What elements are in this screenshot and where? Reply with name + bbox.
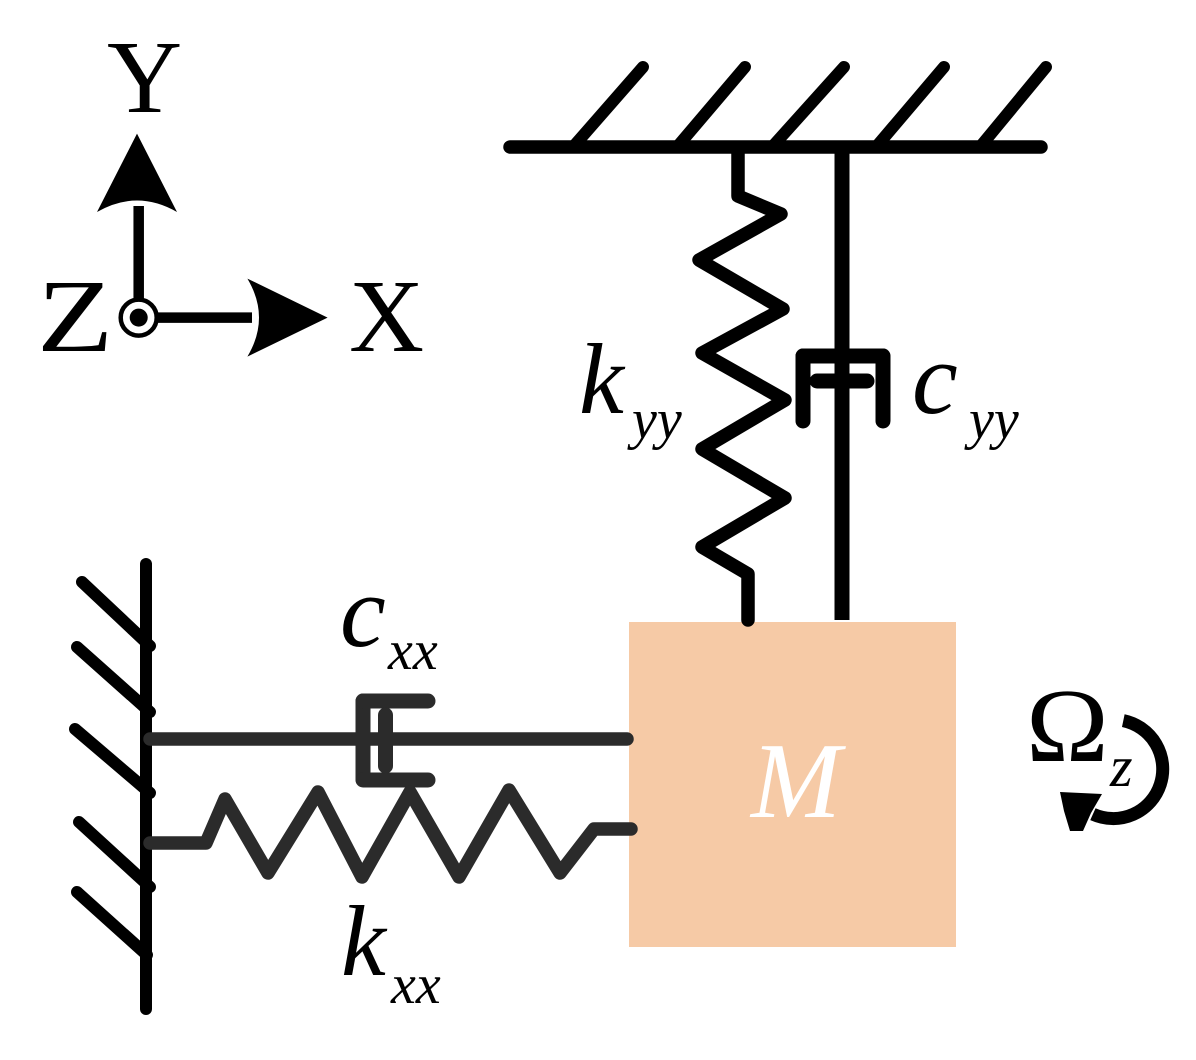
label c_yy (912, 322, 1019, 451)
svg-text:Ω: Ω (1026, 669, 1109, 784)
svg-text:Z: Z (37, 259, 113, 374)
ceiling hatch 2 (677, 67, 745, 147)
ceiling hatch 3 (772, 67, 844, 147)
ceiling hatch 1 (573, 67, 643, 147)
label k_yy (579, 323, 682, 451)
spring k_xx (150, 790, 631, 877)
svg-text:X: X (349, 259, 424, 374)
wall hatch 3 (75, 729, 150, 793)
svg-text:Y: Y (107, 20, 182, 135)
rotation arrow arc Omega_z (1093, 721, 1163, 819)
damper c_yy rod (835, 150, 850, 620)
svg-text:M: M (749, 722, 846, 841)
damper c_xx cup bottom wall (363, 773, 428, 788)
ceiling ground line (510, 140, 1041, 154)
damper c_yy cup cap (803, 349, 883, 364)
svg-text:k: k (341, 885, 388, 997)
label Omega_z (1026, 669, 1133, 799)
svg-text:xx: xx (390, 954, 441, 1016)
wall hatch 5 (77, 892, 147, 955)
label c_xx (340, 555, 438, 682)
damper c_xx piston plate (378, 715, 393, 766)
svg-text:xx: xx (387, 620, 438, 682)
damper c_yy cup left wall (796, 356, 811, 421)
damper c_xx cup top wall (363, 694, 428, 709)
damper c_xx rod (150, 732, 627, 746)
damper c_xx cup cap (356, 701, 371, 779)
axis label Z (37, 259, 113, 374)
X axis arrow (139, 279, 328, 357)
mass M (629, 622, 956, 947)
rotation arrowhead (1060, 792, 1102, 831)
spring k_yy (699, 150, 785, 620)
svg-text:yy: yy (627, 389, 682, 451)
wall ground line (140, 564, 152, 1009)
label k_xx (341, 885, 441, 1016)
Y axis arrow (97, 134, 177, 318)
svg-text:c: c (340, 555, 386, 669)
damper c_yy piston plate (817, 374, 867, 389)
svg-text:z: z (1109, 734, 1133, 799)
svg-text:k: k (579, 323, 626, 435)
svg-text:c: c (912, 322, 958, 436)
wall hatch 4 (79, 822, 150, 887)
svg-text:yy: yy (964, 389, 1019, 451)
Z axis origin symbol (dot in circle) (121, 300, 157, 336)
ceiling hatch 4 (876, 67, 944, 147)
wall hatch 1 (82, 582, 150, 646)
wall hatch 2 (77, 647, 150, 712)
damper c_yy cup right wall (876, 356, 891, 421)
ceiling hatch 5 (980, 67, 1046, 147)
